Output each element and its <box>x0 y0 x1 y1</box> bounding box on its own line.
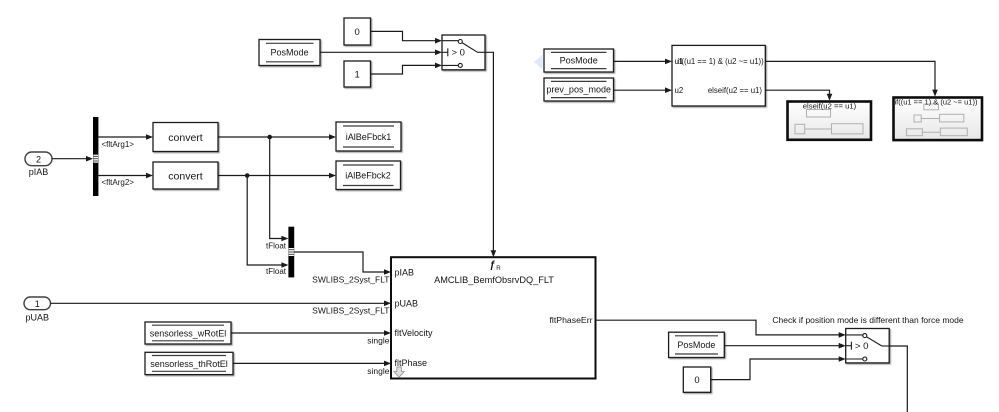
svg-text:1: 1 <box>355 69 360 80</box>
bus creator bar <box>288 227 294 278</box>
svg-text:iAlBeFbck1: iAlBeFbck1 <box>346 132 392 142</box>
svg-text:if((u1 == 1) & (u2 ~= u1)): if((u1 == 1) & (u2 ~= u1)) <box>678 57 765 66</box>
label tFloat (input 1) <box>266 241 287 250</box>
inport 2 pIAB <box>25 152 52 177</box>
label tFloat (input 2) <box>266 267 287 276</box>
svg-text:0: 0 <box>694 375 699 386</box>
wire: inport 2 to bus selector <box>52 156 93 162</box>
svg-text:<fltArg2>: <fltArg2> <box>102 178 135 187</box>
svg-text:SWLIBS_2Syst_FLT: SWLIBS_2Syst_FLT <box>312 306 389 316</box>
if action subsystem <box>894 98 983 141</box>
bus selector bar <box>93 117 98 196</box>
svg-text:pIAB: pIAB <box>29 167 49 177</box>
svg-text:convert: convert <box>168 132 203 144</box>
inport 1 pUAB <box>24 297 51 322</box>
wire: junction 1 down to bus creator input 1 <box>270 137 289 241</box>
wire: PosMode to switch2 input 2 <box>724 343 845 349</box>
svg-text:prev_pos_mode: prev_pos_mode <box>546 85 611 95</box>
switch block (bottom) <box>846 329 890 363</box>
svg-text:Check if position mode is diff: Check if position mode is different than… <box>772 315 963 325</box>
svg-text:convert: convert <box>168 170 203 182</box>
wire: PosMode to switch input 2 <box>320 50 442 56</box>
data store read sensorless_wRotEl <box>145 322 231 344</box>
wire: constant 1 to switch input 3 <box>371 63 443 74</box>
wire: convert1 to iAlBeFbck1 (with junction) <box>218 134 336 140</box>
data store write iAlBeFbck2 <box>336 161 401 190</box>
svg-text:fltPhase: fltPhase <box>395 358 428 368</box>
wire: if output 1 to if action subsystem <box>765 61 938 96</box>
switch block (top) <box>442 35 485 70</box>
svg-text:<fltArg1>: <fltArg1> <box>102 140 135 149</box>
svg-text:sensorless_wRotEl: sensorless_wRotEl <box>150 328 227 338</box>
wire: sensorless_thRotEl to fltPhase <box>233 361 391 377</box>
svg-text:tFloat: tFloat <box>266 241 287 250</box>
svg-text:pIAB: pIAB <box>395 268 415 278</box>
svg-text:pUAB: pUAB <box>25 312 49 322</box>
badge (light blue triangle) <box>534 55 543 69</box>
svg-text:if((u1 == 1) & (u2 ~= u1)): if((u1 == 1) & (u2 ~= u1)) <box>895 98 978 107</box>
svg-text:pUAB: pUAB <box>395 298 419 308</box>
svg-text:0: 0 <box>355 27 360 38</box>
wire: inport 1 to pUAB input <box>51 301 392 316</box>
svg-text:PosMode: PosMode <box>270 48 308 58</box>
svg-text:elseif(u2 == u1): elseif(u2 == u1) <box>803 102 857 111</box>
svg-text:ƒ: ƒ <box>490 260 496 271</box>
svg-text:iAlBeFbck2: iAlBeFbck2 <box>345 170 391 180</box>
svg-text:SWLIBS_2Syst_FLT: SWLIBS_2Syst_FLT <box>312 275 389 285</box>
data store read sensorless_thRotEl <box>145 352 233 374</box>
svg-text:single: single <box>367 366 389 376</box>
if block <box>672 45 765 106</box>
wire: junction 2 down to bus creator input 2 <box>247 176 288 268</box>
svg-text:R: R <box>496 265 501 272</box>
svg-text:u2: u2 <box>675 86 684 95</box>
wire: constant 0 to switch2 input 3 <box>711 356 846 379</box>
svg-text:> 0: > 0 <box>452 48 465 59</box>
wire: switch2 output down to bottom edge <box>889 346 907 412</box>
constant block "0" (top) <box>344 18 371 45</box>
svg-text:PosMode: PosMode <box>560 56 598 66</box>
svg-text:single: single <box>367 336 389 346</box>
svg-text:> 0: > 0 <box>855 341 868 352</box>
data store read PosMode (upper right) <box>544 49 614 72</box>
wire: if output 2 to elseif action subsystem <box>765 90 832 101</box>
data type conversion block 2 <box>153 162 218 189</box>
constant block "1" <box>344 61 371 87</box>
svg-text:sensorless_thRotEl: sensorless_thRotEl <box>150 359 228 369</box>
elseif action subsystem <box>788 102 872 140</box>
wire: switch output down to subsystem trigger <box>485 52 496 257</box>
wire: fltPhaseErr to switch2 input 1 <box>596 320 846 338</box>
wire: bus selector out 1 to convert <box>98 134 153 149</box>
data store read PosMode (bottom) <box>669 332 725 357</box>
subsystem AMCLIB_BemfObsrvDQ_FLT <box>391 257 596 378</box>
data type conversion block 1 <box>153 123 218 152</box>
svg-text:fltPhaseErr: fltPhaseErr <box>550 315 593 325</box>
data store read PosMode (top-left) <box>259 40 320 66</box>
annotation: check position mode text <box>772 315 963 325</box>
svg-text:2: 2 <box>36 154 41 164</box>
data store write iAlBeFbck1 <box>336 122 401 151</box>
svg-text:elseif(u2 == u1): elseif(u2 == u1) <box>708 86 763 95</box>
wire: convert2 to iAlBeFbck2 (with junction) <box>218 173 336 179</box>
wire: bus selector out 2 to convert <box>98 173 153 187</box>
wire: PosMode to if block u1 <box>614 59 673 65</box>
wire: bus creator to pIAB input <box>294 252 391 285</box>
svg-text:PosMode: PosMode <box>677 340 715 350</box>
svg-text:1: 1 <box>35 299 40 309</box>
svg-text:fltVelocity: fltVelocity <box>395 328 434 338</box>
data store read prev_pos_mode <box>544 78 614 101</box>
svg-text:AMCLIB_BemfObsrvDQ_FLT: AMCLIB_BemfObsrvDQ_FLT <box>434 275 554 285</box>
constant block "0" (bottom) <box>683 367 710 392</box>
wire: constant 0 to switch input 1 <box>371 31 443 43</box>
wire: sensorless_wRotEl to fltVelocity <box>231 330 391 345</box>
wire: prev_pos_mode to if block u2 <box>614 87 673 93</box>
svg-text:tFloat: tFloat <box>266 267 287 276</box>
gray down-arrow icon (fltPhase) <box>394 367 404 377</box>
